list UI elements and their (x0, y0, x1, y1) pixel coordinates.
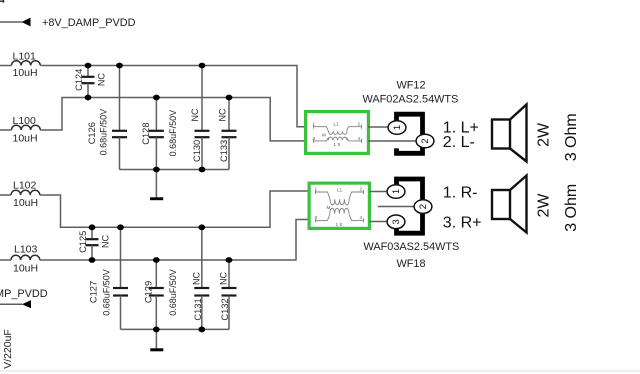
svg-text:L102: L102 (13, 180, 37, 192)
capacitor C131 (194, 227, 209, 329)
node rail2-C129/gnd (153, 327, 160, 333)
svg-text:NC: NC (218, 108, 228, 121)
svg-text:C125: C125 (78, 231, 88, 253)
svg-text:1: 1 (315, 186, 318, 191)
wire L102 left stub (0, 194, 11, 196)
svg-text:2. L-: 2. L- (443, 134, 475, 151)
node net3-C127 (117, 224, 124, 230)
capacitor C130 (195, 66, 210, 170)
svg-text:1 S: 1 S (334, 142, 341, 147)
svg-text:3 Ohm: 3 Ohm (563, 184, 580, 232)
wire: +8V_DAMP_PVDD stub (0, 21, 22, 23)
svg-text:L1: L1 (337, 188, 343, 193)
pin 1 (WF18) (387, 185, 405, 199)
wire net1 row (40, 66, 304, 127)
wire choke1 pin1 to connector (368, 126, 390, 128)
svg-text:NC: NC (219, 272, 229, 285)
svg-text:1. R-: 1. R- (443, 185, 478, 202)
capacitor C128 (149, 98, 164, 170)
svg-text:2W: 2W (536, 122, 553, 147)
wire MP_PVDD stub (0, 303, 23, 305)
node net4-C129 (153, 257, 160, 263)
node net3-C131 (198, 224, 205, 230)
svg-text:3: 3 (315, 215, 318, 220)
node net4-C132 (226, 257, 233, 263)
svg-text:WF12: WF12 (397, 79, 426, 91)
svg-text:L1: L1 (334, 121, 340, 126)
inductor L100 (12, 125, 41, 130)
svg-text:0.68uF/50V: 0.68uF/50V (168, 110, 178, 157)
wire ground rail (bottom half) (121, 328, 230, 330)
capacitor C126 (112, 66, 127, 170)
node net1-C126 (116, 63, 123, 69)
inductor L101 (12, 61, 41, 66)
svg-text:1: 1 (313, 122, 316, 127)
capacitor C129 (149, 260, 164, 329)
svg-text:NC: NC (97, 73, 107, 86)
node net3-C125 (89, 224, 96, 230)
svg-text:10uH: 10uH (13, 262, 38, 274)
wire choke2 pin3 to connector (370, 221, 390, 223)
svg-text:4: 4 (360, 215, 363, 220)
wire ground stub (top half) (155, 170, 157, 198)
svg-text:4: 4 (358, 136, 361, 141)
capacitor C133 (222, 98, 237, 170)
capacitor C124 (82, 66, 95, 98)
svg-text:2: 2 (418, 204, 429, 209)
svg-text:L100: L100 (13, 115, 37, 127)
node net1-C124 (85, 63, 92, 69)
svg-text:1 S: 1 S (336, 222, 343, 227)
svg-text:C132: C132 (220, 298, 230, 320)
svg-text:2: 2 (420, 138, 431, 143)
svg-text:WF18: WF18 (397, 258, 426, 270)
wire net2 row (40, 98, 304, 141)
wire net4 row (40, 220, 308, 261)
connector WF12 body (397, 114, 423, 153)
svg-text:10uH: 10uH (13, 67, 38, 79)
ground (top half) (150, 197, 163, 200)
net arrow +8V_DAMP_PVDD (22, 18, 31, 27)
capacitor C127 (113, 227, 128, 329)
svg-text:3: 3 (313, 136, 316, 141)
ground (bottom half) (150, 348, 163, 351)
svg-text:M: M (322, 133, 326, 138)
svg-text:C133: C133 (219, 140, 229, 162)
inductor L102 (11, 190, 40, 195)
svg-text:3. R+: 3. R+ (443, 214, 482, 231)
svg-text:V/220uF: V/220uF (2, 329, 14, 369)
svg-text:NC: NC (192, 272, 202, 285)
node rail2-C131 (198, 327, 205, 333)
choke U-left WF18 box (309, 183, 369, 228)
svg-text:10uH: 10uH (13, 197, 38, 209)
svg-text:0.68uF/50V: 0.68uF/50V (102, 269, 112, 316)
svg-text:M: M (327, 205, 331, 210)
node net2-C133 (226, 95, 233, 101)
svg-text:MP_PVDD: MP_PVDD (0, 288, 48, 300)
svg-text:2W: 2W (536, 193, 553, 218)
net arrow MP_PVDD (22, 300, 31, 308)
page edge line bottom (0, 370, 640, 371)
svg-text:C130: C130 (192, 140, 202, 162)
svg-text:1: 1 (391, 189, 402, 194)
node net2-C124 (85, 95, 92, 101)
speaker (left channel) (492, 105, 527, 162)
corner artifact top-left (0, 0, 4, 3)
wire choke1 pin2 to connector (368, 140, 418, 142)
svg-text:2: 2 (358, 122, 361, 127)
svg-text:WAF03AS2.54WTS: WAF03AS2.54WTS (364, 241, 460, 253)
wire choke2 pin1 to connector (370, 191, 390, 193)
node net2-C128 (153, 95, 160, 101)
choke L1 (bottom) interior (315, 186, 364, 227)
wire ground stub (bottom half) (155, 329, 157, 348)
svg-text:NC: NC (101, 235, 111, 248)
wire net3 row (40, 191, 308, 227)
svg-text:WAF02AS2.54WTS: WAF02AS2.54WTS (363, 93, 459, 105)
wire choke2 pin2 to connector (378, 206, 416, 208)
svg-text:NC: NC (190, 108, 200, 121)
svg-text:1: 1 (392, 125, 403, 130)
pin 1 (WF12) (388, 121, 406, 135)
choke L1 (top) interior (313, 121, 362, 147)
wire L103 left stub (0, 259, 11, 261)
choke U-left WF12 box (306, 112, 369, 154)
capacitor C132 (222, 260, 237, 329)
node rail-C130 (199, 167, 206, 173)
node net1-C130 (199, 63, 206, 69)
svg-text:L101: L101 (13, 51, 37, 63)
wire net1 left stub (0, 65, 12, 67)
wire L100 left stub (0, 129, 12, 131)
svg-text:C124: C124 (74, 69, 84, 91)
svg-text:0.68uF/50V: 0.68uF/50V (168, 269, 178, 316)
svg-text:C127: C127 (89, 281, 99, 303)
pin 3 (WF18) (387, 215, 405, 229)
svg-text:C131: C131 (193, 298, 203, 320)
svg-text:C126: C126 (87, 122, 97, 144)
svg-text:+8V_DAMP_PVDD: +8V_DAMP_PVDD (42, 17, 136, 29)
node net4-C125 (89, 257, 96, 263)
pin 2 (WF12) (416, 134, 434, 148)
svg-text:C128: C128 (141, 122, 151, 144)
connector WF18 body (397, 179, 423, 233)
speaker (right channel) (492, 176, 527, 233)
svg-text:2: 2 (360, 186, 363, 191)
svg-text:C129: C129 (144, 281, 154, 303)
svg-text:3: 3 (391, 219, 402, 224)
svg-text:10uH: 10uH (13, 133, 38, 145)
svg-text:0.68uF/50V: 0.68uF/50V (99, 109, 109, 156)
svg-text:L103: L103 (14, 244, 38, 256)
svg-text:3 Ohm: 3 Ohm (563, 113, 580, 161)
node rail-C128/gnd (153, 167, 160, 173)
pin 2 (WF18) (414, 200, 432, 214)
wire ground rail (top half) (120, 169, 230, 171)
capacitor C125 (86, 227, 99, 260)
inductor L103 (11, 255, 40, 260)
